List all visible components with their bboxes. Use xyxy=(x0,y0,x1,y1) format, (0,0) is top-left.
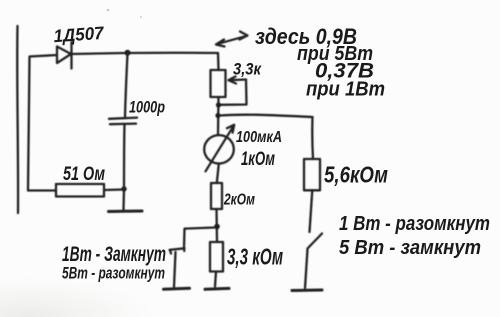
wire R4 to ground xyxy=(215,272,216,287)
switch SA2 arm xyxy=(308,234,323,249)
svg-text:1кОм: 1кОм xyxy=(241,149,275,170)
node junction R3/R4/switch xyxy=(214,224,220,230)
wire pot bottom through junctions xyxy=(217,97,220,135)
ground under SA2 xyxy=(292,289,322,293)
node junction diode/cap xyxy=(125,50,131,56)
ground under R4 xyxy=(205,287,229,291)
resistor R1 51 Ом xyxy=(56,184,104,197)
wire left branch horizontal to R1 xyxy=(28,189,56,191)
annotation arrow xyxy=(217,36,248,44)
node junction cap/R1/ground xyxy=(121,186,126,191)
wire R3 to node xyxy=(215,209,218,242)
wire SA1 lower contact xyxy=(174,252,176,287)
svg-text:5Вт - разомкнут: 5Вт - разомкнут xyxy=(62,264,165,283)
switch SA1 contact xyxy=(170,248,185,250)
paper speck xyxy=(107,9,110,12)
svg-text:1000p: 1000p xyxy=(129,98,165,117)
wire top anode xyxy=(30,55,58,57)
capacitor C1 1000p xyxy=(109,118,137,119)
svg-text:5,6кОм: 5,6кОм xyxy=(324,161,388,187)
wire meter to R3 xyxy=(217,164,219,183)
potentiometer R2 3,3к xyxy=(211,70,226,97)
wire wiper loop xyxy=(220,80,247,105)
wire left vertical xyxy=(16,26,19,213)
resistor R3 2кОм xyxy=(211,183,222,209)
node junction right branch xyxy=(215,113,220,118)
svg-text:при 1Вт: при 1Вт xyxy=(306,79,385,101)
wire SA2 to ground xyxy=(305,249,308,288)
wire R5 down xyxy=(310,190,313,232)
wire right branch down xyxy=(311,117,314,159)
wire top cathode to corner xyxy=(72,53,219,54)
meter needle arrow xyxy=(206,125,235,171)
wire node to ground xyxy=(122,189,125,210)
svg-text:3,3 кОм: 3,3 кОм xyxy=(227,244,283,270)
wire top corner down to pot xyxy=(217,53,220,70)
wire left branch vertical xyxy=(28,57,30,190)
wiper arrow of R2 xyxy=(229,78,246,81)
diode VD1 1Д507 xyxy=(57,47,71,64)
wire node to switch SA1 xyxy=(184,228,215,248)
meter PA1 xyxy=(204,135,234,163)
svg-text:2кОм: 2кОм xyxy=(223,192,255,209)
paper speck xyxy=(140,16,142,18)
wire cap branch xyxy=(125,53,128,118)
svg-text:1Д507: 1Д507 xyxy=(53,23,105,47)
svg-text:100мкА: 100мкА xyxy=(236,129,282,146)
wire cap bottom to node xyxy=(123,125,126,188)
ground under node xyxy=(109,210,143,214)
resistor R4 3,3кОм xyxy=(210,242,223,272)
wire R1 right to node xyxy=(104,188,124,191)
svg-text:51 Ом: 51 Ом xyxy=(63,164,105,185)
svg-text:5 Вт - замкнут: 5 Вт - замкнут xyxy=(339,237,481,259)
svg-text:3,3к: 3,3к xyxy=(233,60,262,79)
ground under SA1 xyxy=(164,287,190,291)
paper shading bottom-left xyxy=(0,0,1,1)
resistor R5 5,6кОм xyxy=(304,159,320,190)
node junction wiper xyxy=(216,102,221,107)
wire right branch horizontal xyxy=(220,115,313,117)
svg-text:1 Вт - разомкнут: 1 Вт - разомкнут xyxy=(339,213,490,235)
